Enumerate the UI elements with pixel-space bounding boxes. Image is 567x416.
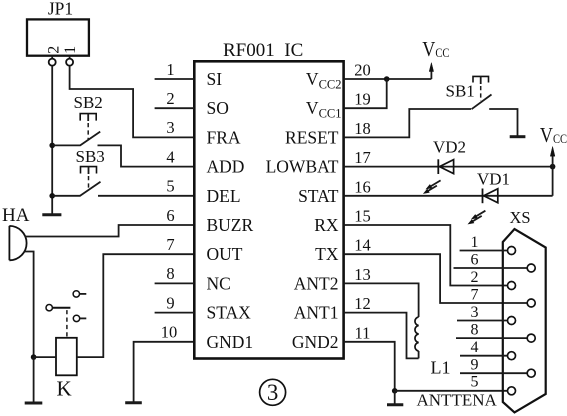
svg-text:11: 11 (355, 323, 371, 342)
wire node down to ground (394, 391, 396, 404)
pin 6 BUZR (166, 206, 253, 235)
svg-text:16: 16 (354, 177, 371, 196)
inductor L1 (415, 317, 451, 378)
pin 10 GND1 (161, 323, 253, 352)
wire rail to SB3 (52, 195, 80, 197)
wire pin18 RESET to SB1 (344, 109, 471, 137)
svg-text:SB2: SB2 (74, 93, 103, 112)
pin 16 STAT (298, 177, 371, 206)
svg-text:SO: SO (207, 98, 229, 118)
LED VD1 (468, 170, 511, 225)
svg-text:6: 6 (471, 251, 479, 268)
wire pin14 TX to XS pin7 (344, 254, 528, 303)
pin 7 OUT (166, 235, 242, 264)
wire SB2 to IC pin4 ADD (98, 145, 195, 166)
svg-text:SB1: SB1 (446, 82, 475, 101)
wire JP1 pin1 to IC pin3 FRA (70, 66, 195, 138)
ground (GND2) (387, 403, 403, 406)
svg-text:4: 4 (471, 339, 479, 356)
svg-text:DEL: DEL (207, 186, 241, 206)
svg-text:19: 19 (354, 90, 371, 109)
ground (left rail) (42, 213, 61, 216)
svg-text:5: 5 (166, 177, 174, 196)
wire K coil to IC pin7 OUT (77, 254, 195, 357)
svg-text:SB3: SB3 (76, 147, 105, 166)
svg-text:7: 7 (166, 235, 174, 254)
junction ANTTENA node (392, 388, 398, 394)
pin 14 TX (315, 236, 371, 265)
ground (HA/K) (25, 402, 43, 405)
XS pin 1 (460, 234, 516, 255)
wire HA to IC pin6 BUZR (25, 225, 195, 237)
junction VCC/VD2 at pin17 (550, 164, 556, 170)
svg-text:2: 2 (45, 46, 62, 54)
wire pin12 ANT1 to L1 bottom (344, 313, 419, 359)
pin 13 ANT2 (294, 265, 371, 294)
junction pin20/pin19 tie (384, 76, 390, 82)
connector XS (503, 208, 546, 412)
svg-text:STAT: STAT (298, 186, 339, 206)
wire junction to K coil (34, 356, 56, 358)
wire tie down to pin19 (344, 79, 387, 108)
svg-text:ANTTENA: ANTTENA (417, 390, 498, 409)
pin 11 GND2 (292, 323, 371, 352)
XS pin 9 (460, 357, 535, 378)
svg-text:RF001 IC: RF001 IC (223, 40, 303, 61)
XS pin 3 (457, 304, 516, 325)
svg-text:VD1: VD1 (477, 170, 510, 189)
relay K (46, 291, 86, 401)
svg-text:3: 3 (471, 304, 479, 321)
svg-text:JP1: JP1 (48, 0, 73, 19)
pin 18 RESET (285, 119, 371, 148)
wire pin11 GND2 to ANTTENA node (344, 342, 395, 391)
svg-text:20: 20 (354, 61, 371, 80)
wire ANTTENA net to XS pin5 (395, 390, 508, 392)
svg-text:3: 3 (267, 380, 279, 405)
svg-text:8: 8 (471, 321, 479, 338)
svg-text:2: 2 (471, 269, 479, 286)
junction rail/SB3 (49, 193, 55, 199)
XS pin 8 (456, 321, 535, 342)
svg-text:12: 12 (354, 294, 371, 313)
ground (GND1) (125, 401, 142, 404)
svg-text:1: 1 (471, 234, 479, 251)
LED VD2 (423, 137, 466, 194)
svg-text:10: 10 (161, 323, 178, 342)
svg-text:8: 8 (166, 264, 174, 283)
svg-text:BUZR: BUZR (207, 215, 254, 235)
XS pin 2 (471, 269, 516, 290)
svg-text:HA: HA (2, 205, 30, 226)
pin 15 RX (314, 207, 371, 236)
wire rail to SB2 (52, 144, 80, 146)
IC RF001 (194, 40, 343, 359)
svg-text:NC: NC (207, 273, 231, 293)
wire JP1 pin2 down rail (51, 66, 53, 214)
wire junction down (33, 357, 35, 402)
wire pin13 ANT2 to L1 (344, 283, 419, 317)
pin 12 ANT1 (294, 294, 371, 323)
pin 1 SI (155, 60, 223, 89)
svg-text:L1: L1 (431, 358, 451, 378)
svg-text:14: 14 (354, 236, 371, 255)
pin 9 STAX (155, 293, 252, 322)
svg-text:5: 5 (471, 374, 479, 391)
pin 20 VCC2 (306, 61, 371, 92)
svg-text:3: 3 (166, 118, 174, 137)
connector JP1 (27, 0, 89, 66)
wire IC pin10 GND1 to ground (134, 342, 195, 402)
svg-text:ANT2: ANT2 (294, 273, 339, 293)
wire HA to ground/K junction (24, 252, 33, 358)
junction rail/SB2 (49, 143, 55, 149)
svg-text:7: 7 (471, 286, 479, 303)
pin 17 LOWBAT (266, 148, 371, 177)
svg-text:ADD: ADD (207, 157, 245, 177)
svg-text:XS: XS (510, 208, 531, 227)
pin 2 SO (155, 89, 229, 118)
svg-text:STAX: STAX (207, 303, 252, 323)
pin 19 VCC1 (306, 90, 371, 121)
XS pin 6 (454, 251, 536, 272)
svg-text:1: 1 (166, 60, 174, 79)
pushbutton SB2 (74, 93, 103, 146)
power VCC top (422, 38, 449, 79)
pin 3 FRA (166, 118, 241, 147)
pushbutton SB1 (446, 76, 492, 109)
junction K coil left (31, 354, 37, 360)
svg-text:SI: SI (207, 69, 223, 89)
svg-text:6: 6 (166, 206, 174, 225)
XS pin 5 (471, 374, 516, 395)
svg-text:GND2: GND2 (292, 332, 339, 352)
ground (SB1) (510, 135, 526, 138)
svg-text:K: K (57, 377, 72, 401)
wire SB1 to ground (489, 109, 517, 136)
figure number 3 (260, 379, 286, 405)
buzzer HA (2, 205, 30, 260)
svg-text:VD2: VD2 (433, 137, 466, 156)
wire pin17 LOWBAT line (344, 166, 553, 168)
svg-text:2: 2 (166, 89, 174, 108)
svg-text:17: 17 (354, 148, 371, 167)
svg-text:ANT1: ANT1 (294, 303, 339, 323)
XS pin 7 (471, 286, 536, 307)
svg-text:15: 15 (354, 207, 371, 226)
svg-text:13: 13 (354, 265, 371, 284)
svg-text:RESET: RESET (285, 127, 339, 147)
svg-text:FRA: FRA (207, 127, 241, 147)
svg-text:9: 9 (166, 293, 174, 312)
wire pin20 to VCC (344, 78, 432, 80)
svg-text:RX: RX (314, 215, 339, 235)
pin 8 NC (155, 264, 231, 293)
svg-text:1: 1 (62, 46, 79, 54)
pin 4 ADD (166, 147, 244, 176)
pushbutton SB3 (76, 147, 105, 196)
svg-text:18: 18 (354, 119, 371, 138)
wire pin15 RX to XS pin2 (344, 225, 508, 286)
svg-text:OUT: OUT (207, 244, 243, 264)
svg-text:LOWBAT: LOWBAT (266, 157, 339, 177)
wire L1 bottom (418, 351, 420, 358)
svg-text:GND1: GND1 (207, 332, 254, 352)
svg-text:9: 9 (471, 357, 479, 374)
wire SB3 to IC pin5 DEL (98, 195, 194, 197)
wire pin16 STAT line (344, 195, 553, 197)
power VCC right (540, 123, 567, 195)
svg-text:TX: TX (315, 244, 339, 264)
XS pin 4 (460, 339, 516, 360)
pin 5 DEL (166, 177, 240, 206)
svg-text:4: 4 (166, 147, 174, 166)
